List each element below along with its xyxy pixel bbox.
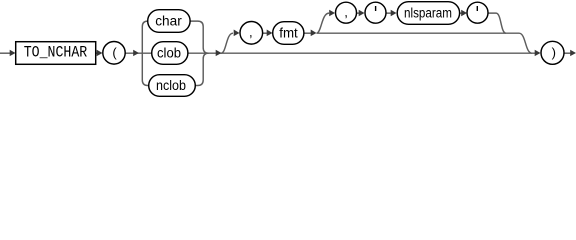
svg-text:nlsparam: nlsparam xyxy=(404,6,452,21)
operand box clob xyxy=(152,42,188,65)
wire: main line through skip xyxy=(188,52,535,54)
svg-text:nclob: nclob xyxy=(156,78,186,93)
circle comma xyxy=(240,22,263,45)
wire: fmt skip line xyxy=(317,32,520,34)
wire: exit line xyxy=(565,52,572,54)
wire: entry line xyxy=(0,52,10,54)
wire: comma2 to quote1 xyxy=(357,12,361,14)
arrowhead exit xyxy=(570,50,576,56)
wire: nlsparam to quote2 xyxy=(460,12,463,14)
wire: nested ramp up xyxy=(317,13,330,33)
svg-text:clob: clob xyxy=(157,46,181,61)
arrowhead before quote1 xyxy=(359,10,365,17)
arrowhead before branch xyxy=(133,50,139,56)
arrowhead before fmt xyxy=(267,30,273,37)
wire: branch vertical entry xyxy=(142,21,150,85)
arrowhead before nlsparam xyxy=(391,10,397,17)
wire: quote1 to nlsparam xyxy=(387,12,392,14)
arrowhead before comma2 xyxy=(329,10,335,17)
operand box fmt xyxy=(273,22,304,45)
wire: char exit xyxy=(190,21,209,53)
wire: nested return down xyxy=(489,13,507,33)
label quote2 xyxy=(476,6,478,11)
arrowhead before ) xyxy=(535,50,541,56)
svg-text:char: char xyxy=(155,14,182,29)
wire: ( to branch xyxy=(126,52,152,54)
wire: TO_NCHAR to ( xyxy=(96,52,99,54)
circle ) xyxy=(541,41,564,64)
circle ( xyxy=(103,42,125,65)
arrowhead before quote2 xyxy=(461,10,467,17)
arrowhead after fmt xyxy=(311,30,317,37)
wire: ramp up to fmt row xyxy=(221,33,233,53)
svg-text:fmt: fmt xyxy=(279,26,298,41)
operand box nlsparam xyxy=(397,2,459,25)
circle quote2 xyxy=(467,2,488,23)
circle quote1 xyxy=(365,2,386,23)
wire: fmt to junction xyxy=(304,32,311,34)
keyword box TO_NCHAR xyxy=(16,42,96,65)
circle comma2 xyxy=(336,2,357,23)
operand box nclob xyxy=(149,75,196,97)
wire: nclob exit xyxy=(195,53,209,85)
svg-text:,: , xyxy=(344,5,348,20)
arrowhead before ( xyxy=(97,50,103,56)
svg-text:TO_NCHAR: TO_NCHAR xyxy=(24,43,88,61)
wire: comma to fmt xyxy=(263,32,268,34)
operand box char xyxy=(148,10,190,33)
railroad diagram TO_NCHAR xyxy=(0,0,576,98)
arrowhead before comma xyxy=(234,30,240,37)
svg-text:,: , xyxy=(249,25,253,40)
svg-text:(: ( xyxy=(112,45,117,60)
arrowhead merge after branch xyxy=(216,50,222,56)
wire: fmt row return down xyxy=(519,33,532,53)
arrowhead entry xyxy=(10,50,16,56)
label quote1 xyxy=(375,6,377,11)
svg-text:): ) xyxy=(552,45,556,60)
